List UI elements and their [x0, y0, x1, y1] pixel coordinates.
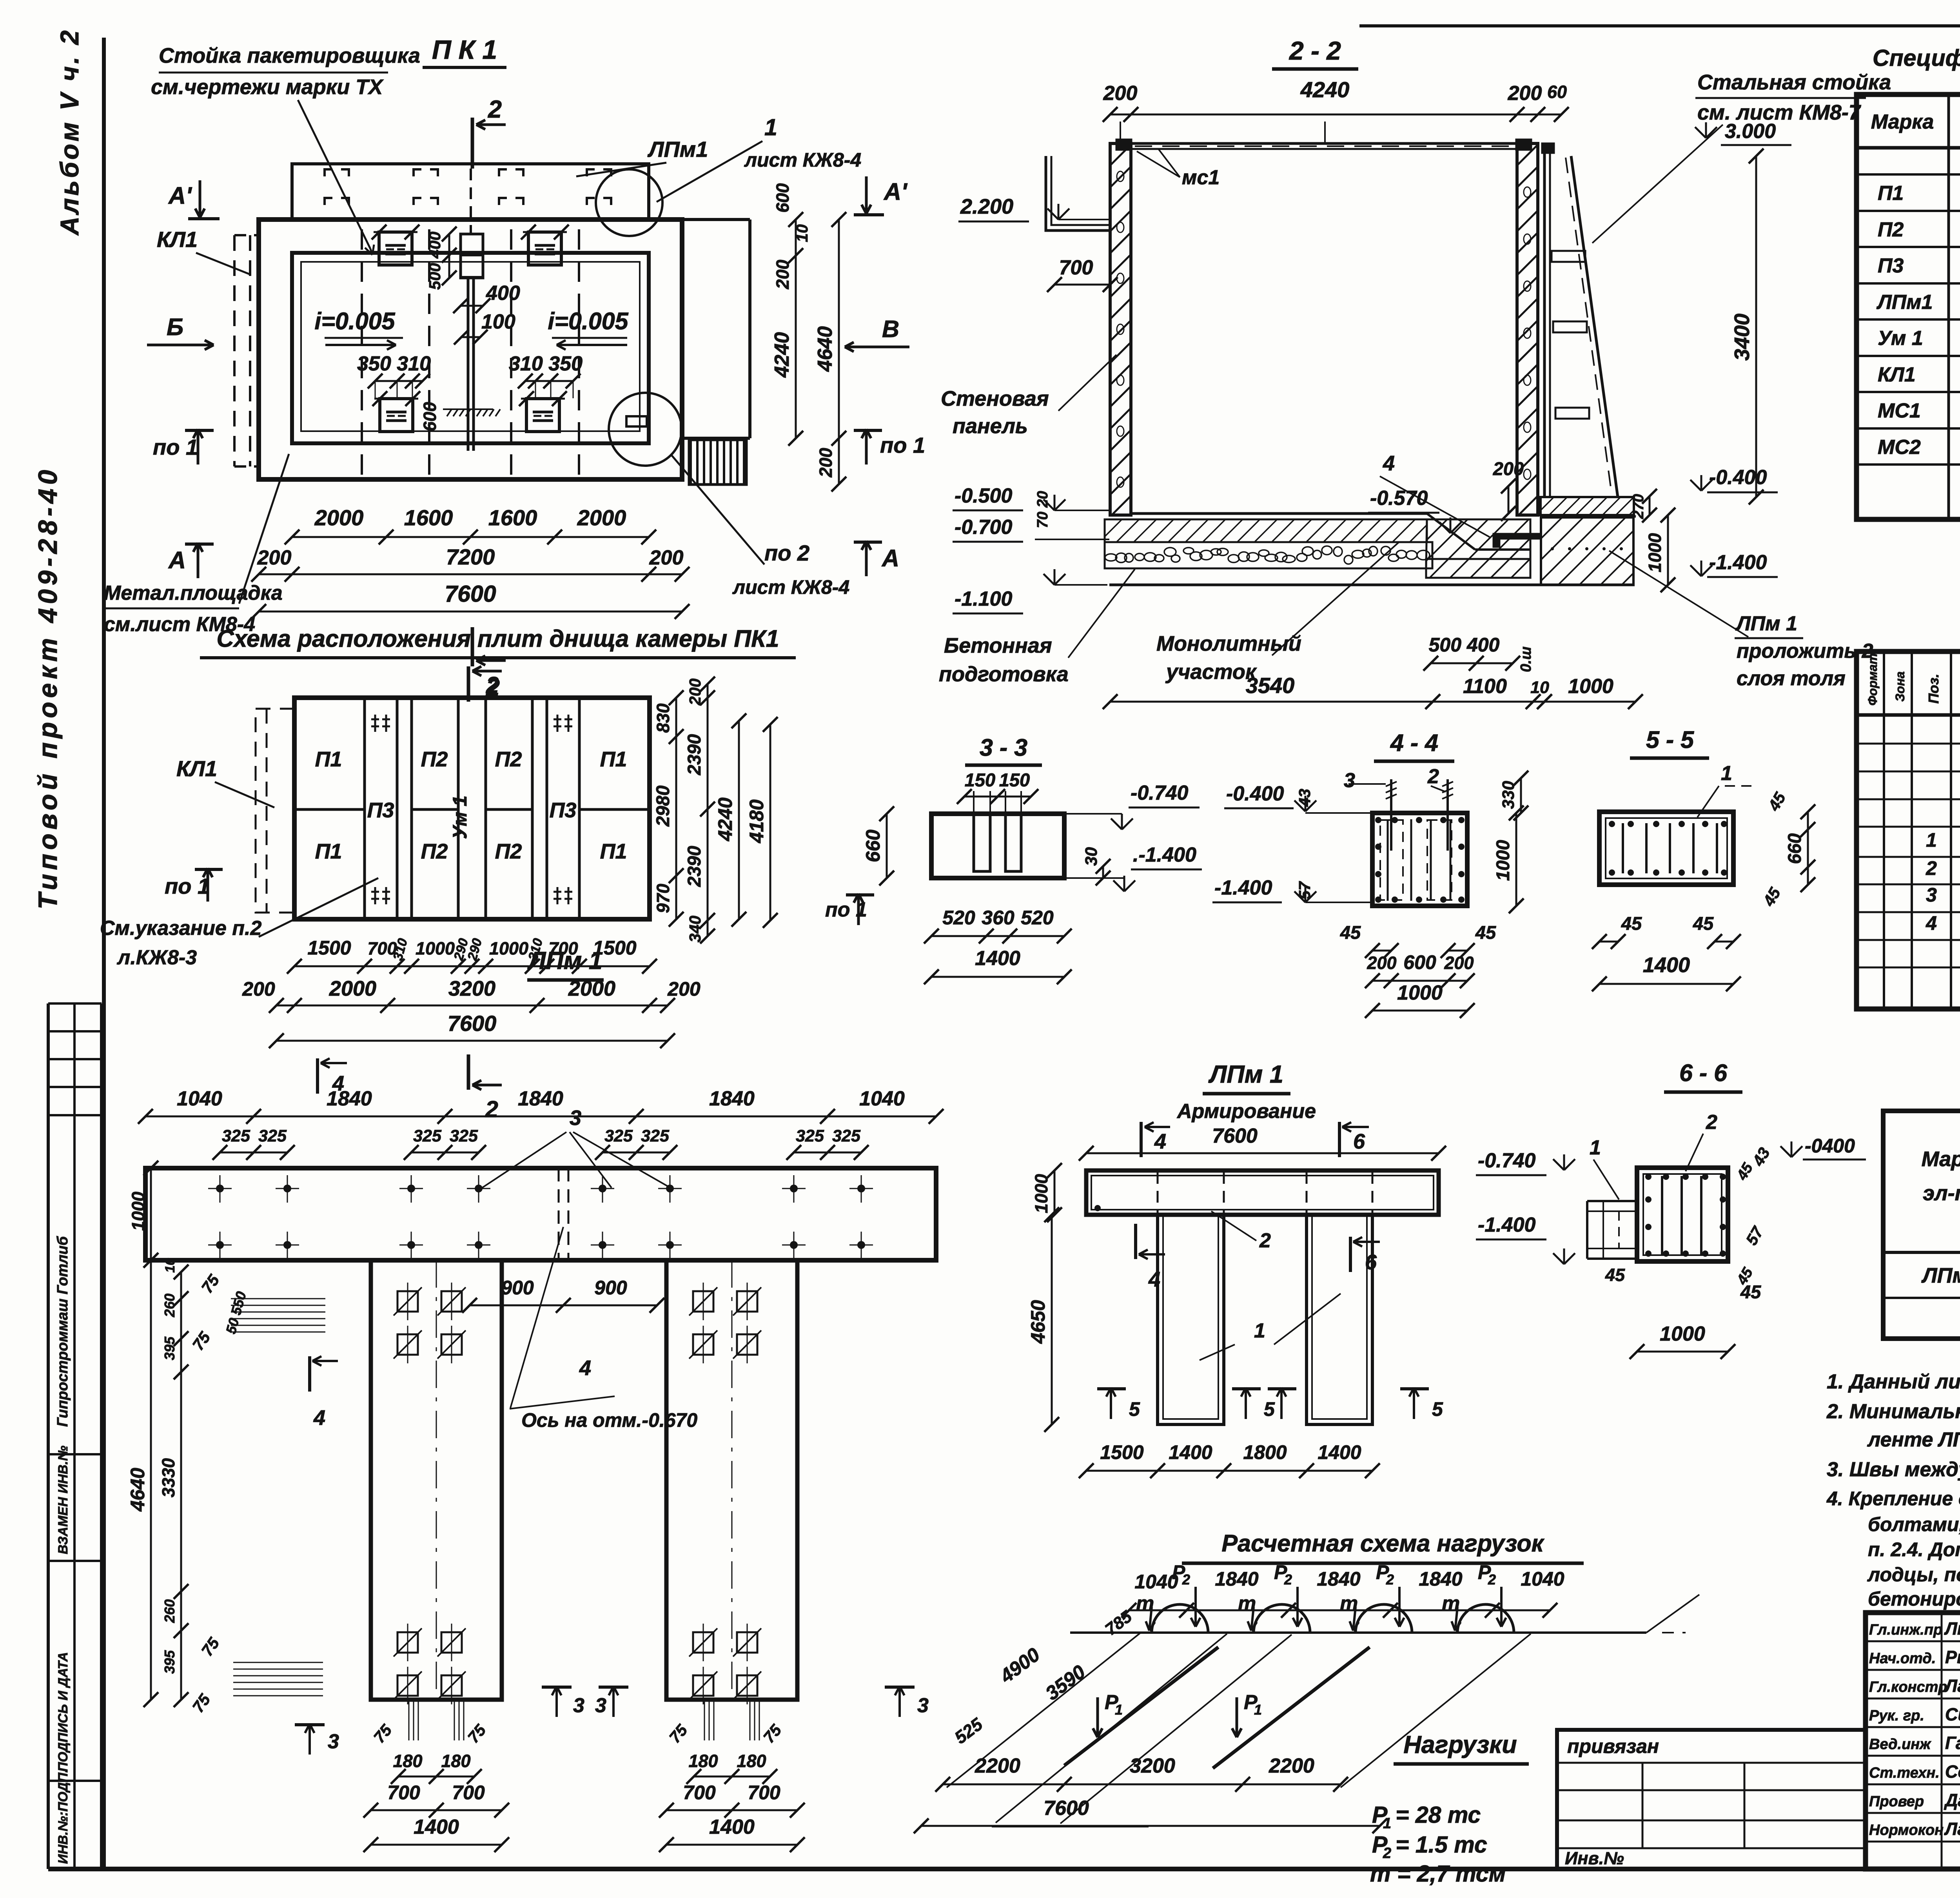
- svg-text:Монолитный: Монолитный: [1156, 632, 1301, 655]
- svg-text:П2: П2: [421, 840, 448, 863]
- svg-text:4: 4: [1926, 912, 1937, 934]
- svg-text:520: 520: [942, 907, 975, 929]
- svg-text:-1.100: -1.100: [955, 588, 1013, 610]
- svg-text:1400: 1400: [709, 1816, 755, 1838]
- svg-text:3: 3: [917, 1694, 929, 1717]
- svg-text:1840: 1840: [1419, 1568, 1462, 1590]
- svg-text:Формат: Формат: [1866, 653, 1880, 706]
- svg-text:-0.500: -0.500: [955, 484, 1013, 507]
- svg-text:п. 2.4. Допускается крепле: п. 2.4. Допускается крепление оборудован…: [1868, 1539, 1960, 1560]
- svg-text:ИНВ.№:ПОДП.: ИНВ.№:ПОДП.: [56, 1769, 71, 1864]
- svg-text:болтами, соединенными с бетоно: болтами, соединенными с бетоном на эпокс…: [1868, 1513, 1960, 1535]
- svg-text:2: 2: [486, 672, 499, 698]
- svg-text:П1: П1: [315, 840, 342, 863]
- svg-text:Марка: Марка: [1922, 1147, 1960, 1171]
- svg-text:см.чертежи марки ТХ: см.чертежи марки ТХ: [151, 75, 384, 99]
- svg-text:Стеновая: Стеновая: [941, 387, 1049, 410]
- svg-text:Зона: Зона: [1893, 671, 1907, 702]
- svg-text:325: 325: [222, 1127, 250, 1145]
- svg-text:Любавин: Любавин: [1944, 1619, 1960, 1639]
- svg-text:270: 270: [1630, 494, 1647, 519]
- svg-text:660: 660: [862, 829, 884, 862]
- svg-text:участок: участок: [1165, 660, 1257, 684]
- svg-text:1000: 1000: [1568, 675, 1613, 698]
- svg-text:5: 5: [1129, 1398, 1140, 1420]
- svg-text:1400: 1400: [975, 947, 1020, 970]
- svg-text:П1: П1: [600, 840, 627, 863]
- svg-text:привязан: привязан: [1567, 1735, 1659, 1757]
- svg-text:10: 10: [793, 224, 811, 242]
- svg-text:1: 1: [1383, 1815, 1391, 1832]
- svg-text:-1.400: -1.400: [1709, 551, 1767, 574]
- svg-text:45: 45: [1340, 922, 1361, 943]
- svg-text:1600: 1600: [488, 505, 537, 530]
- svg-text:ЛПм 1: ЛПм 1: [1921, 1264, 1960, 1287]
- svg-text:-0400: -0400: [1805, 1135, 1855, 1157]
- svg-text:7600: 7600: [1044, 1797, 1089, 1820]
- svg-text:1840: 1840: [327, 1087, 372, 1110]
- svg-text:1000: 1000: [1660, 1323, 1705, 1345]
- svg-text:1600: 1600: [404, 505, 453, 530]
- svg-text:45: 45: [1693, 913, 1714, 934]
- svg-text:Ст.техн.: Ст.техн.: [1869, 1765, 1940, 1781]
- svg-text:325: 325: [796, 1127, 824, 1145]
- svg-text:4: 4: [1383, 452, 1395, 475]
- svg-text:Ум 1: Ум 1: [449, 795, 471, 839]
- svg-text:Провер: Провер: [1869, 1793, 1924, 1810]
- svg-text:по 1: по 1: [880, 433, 925, 457]
- svg-text:600: 600: [420, 402, 440, 431]
- svg-text:П3: П3: [1878, 254, 1904, 277]
- svg-text:A': A': [168, 182, 192, 209]
- svg-text:Гл.инж.пр: Гл.инж.пр: [1869, 1622, 1942, 1638]
- svg-text:4 - 4: 4 - 4: [1390, 729, 1438, 756]
- svg-text:3200: 3200: [1130, 1755, 1175, 1777]
- svg-text:проложить 2: проложить 2: [1737, 640, 1873, 662]
- svg-text:по 1: по 1: [165, 874, 210, 898]
- svg-text:-0.400: -0.400: [1709, 466, 1767, 489]
- svg-text:4240: 4240: [771, 332, 793, 378]
- svg-text:П1: П1: [1878, 182, 1904, 205]
- svg-text:Марка: Марка: [1871, 111, 1934, 133]
- svg-text:45: 45: [1740, 1281, 1761, 1302]
- svg-text:1500: 1500: [307, 937, 351, 959]
- svg-text:4640: 4640: [814, 326, 837, 372]
- svg-text:1000: 1000: [1031, 1174, 1051, 1213]
- svg-text:ЛПм 1: ЛПм 1: [1735, 612, 1797, 635]
- svg-text:5: 5: [1432, 1398, 1443, 1420]
- svg-text:П1: П1: [315, 748, 342, 771]
- svg-text:4: 4: [579, 1356, 591, 1380]
- svg-text:660: 660: [1784, 833, 1805, 864]
- svg-text:325: 325: [413, 1127, 442, 1145]
- svg-text:КЛ1: КЛ1: [157, 227, 198, 252]
- svg-text:10: 10: [1530, 678, 1549, 697]
- svg-text:-1.400: -1.400: [1214, 876, 1272, 899]
- svg-text:A: A: [881, 545, 899, 572]
- svg-text:180: 180: [441, 1751, 470, 1771]
- svg-text:см. лист КМ8-7: см. лист КМ8-7: [1697, 101, 1862, 124]
- svg-text:Ось на отм.-0.670: Ось на отм.-0.670: [521, 1409, 697, 1431]
- svg-text:2: 2: [1383, 1845, 1391, 1862]
- svg-text:П2: П2: [1878, 218, 1904, 241]
- svg-text:200: 200: [1493, 458, 1524, 479]
- svg-text:ЛПм 1: ЛПм 1: [527, 947, 603, 974]
- svg-text:Гл.констр: Гл.констр: [1869, 1679, 1947, 1695]
- svg-text:45: 45: [1475, 922, 1496, 943]
- svg-text:2.200: 2.200: [960, 195, 1013, 218]
- svg-text:лист КЖ8-4: лист КЖ8-4: [732, 576, 849, 598]
- svg-text:2: 2: [1926, 857, 1937, 879]
- svg-text:.-1.400: .-1.400: [1133, 844, 1196, 866]
- svg-text:200: 200: [1103, 82, 1138, 105]
- svg-text:900: 900: [501, 1277, 534, 1299]
- svg-text:4650: 4650: [1027, 1300, 1049, 1344]
- svg-text:= 1.5 тс: = 1.5 тс: [1396, 1832, 1487, 1858]
- svg-text:П2: П2: [495, 840, 522, 863]
- svg-text:1400: 1400: [1318, 1441, 1361, 1463]
- svg-text:3400: 3400: [1730, 314, 1754, 361]
- svg-text:4. Крепление оборудования к: 4. Крепление оборудования к фундаментным…: [1826, 1488, 1960, 1510]
- svg-text:45: 45: [1621, 913, 1642, 934]
- svg-text:Стойка пакетировщика: Стойка пакетировщика: [159, 44, 420, 67]
- svg-text:1840: 1840: [1317, 1568, 1360, 1590]
- svg-text:1840: 1840: [518, 1087, 563, 1110]
- svg-text:1: 1: [1926, 829, 1937, 851]
- svg-text:2000: 2000: [577, 505, 626, 530]
- svg-text:Соболева: Соболева: [1945, 1762, 1960, 1782]
- svg-text:П1: П1: [600, 748, 627, 771]
- svg-text:П3: П3: [367, 798, 394, 822]
- svg-text:325: 325: [258, 1127, 287, 1145]
- svg-text:Инв.№: Инв.№: [1565, 1848, 1624, 1868]
- svg-text:-0.740: -0.740: [1478, 1149, 1536, 1172]
- svg-text:500 400: 500 400: [1429, 634, 1500, 656]
- svg-text:л.КЖ8-3: л.КЖ8-3: [116, 946, 197, 969]
- svg-text:180: 180: [737, 1751, 766, 1771]
- svg-text:4240: 4240: [1300, 77, 1350, 102]
- svg-text:2390: 2390: [684, 734, 704, 776]
- svg-text:ЛПм1: ЛПм1: [1876, 291, 1933, 314]
- svg-text:360: 360: [982, 907, 1014, 929]
- svg-text:1040: 1040: [177, 1087, 222, 1110]
- svg-text:по 1: по 1: [825, 898, 867, 921]
- svg-text:60: 60: [1547, 82, 1567, 102]
- svg-text:Альбом V ч. 2: Альбом V ч. 2: [55, 28, 84, 236]
- svg-text:m: m: [1136, 1592, 1154, 1615]
- svg-text:Схема расположения плит днища: Схема расположения плит днища камеры ПК1: [216, 625, 779, 652]
- svg-text:700: 700: [1059, 256, 1093, 279]
- svg-text:600: 600: [773, 183, 793, 212]
- svg-text:П3: П3: [550, 798, 577, 822]
- svg-text:1: 1: [1254, 1702, 1262, 1718]
- svg-text:43: 43: [1296, 789, 1314, 807]
- svg-text:Вед.инж: Вед.инж: [1869, 1736, 1931, 1753]
- svg-text:Лапкин: Лапкин: [1944, 1676, 1960, 1696]
- svg-text:П К 1: П К 1: [432, 35, 497, 65]
- svg-text:0.ш: 0.ш: [1518, 646, 1534, 672]
- svg-text:1. Данный лист см. совмес: 1. Данный лист см. совместно с листами К…: [1827, 1370, 1960, 1393]
- svg-text:2200: 2200: [1269, 1755, 1314, 1777]
- svg-text:3: 3: [595, 1694, 606, 1717]
- svg-text:1000: 1000: [128, 1192, 148, 1231]
- svg-text:2980: 2980: [652, 786, 673, 827]
- svg-text:3 - 3: 3 - 3: [980, 734, 1027, 761]
- svg-text:2: 2: [1427, 765, 1439, 788]
- svg-text:Метал.площадка: Метал.площадка: [104, 582, 283, 604]
- svg-text:3200: 3200: [448, 977, 495, 1000]
- svg-text:Гипростроммаш Готлиб: Гипростроммаш Готлиб: [54, 1236, 71, 1427]
- svg-text:2200: 2200: [975, 1755, 1020, 1777]
- svg-text:1000: 1000: [1645, 533, 1665, 572]
- svg-text:970: 970: [653, 884, 673, 913]
- svg-text:150: 150: [999, 769, 1030, 790]
- svg-text:1: 1: [1590, 1136, 1601, 1159]
- svg-text:4: 4: [313, 1406, 325, 1430]
- svg-text:520: 520: [1021, 907, 1054, 929]
- svg-text:310 350: 310 350: [509, 352, 583, 375]
- svg-text:-0.700: -0.700: [955, 516, 1013, 539]
- svg-text:3: 3: [570, 1106, 581, 1130]
- svg-text:395: 395: [162, 1336, 178, 1360]
- svg-text:2: 2: [1284, 1571, 1292, 1588]
- svg-text:5 - 5: 5 - 5: [1646, 726, 1694, 753]
- svg-text:6: 6: [1365, 1250, 1377, 1274]
- svg-text:5: 5: [1264, 1398, 1275, 1420]
- svg-text:1: 1: [1254, 1319, 1265, 1342]
- svg-text:45: 45: [1605, 1265, 1625, 1285]
- svg-text:700: 700: [748, 1782, 780, 1804]
- svg-text:Лапкин: Лапкин: [1944, 1819, 1960, 1839]
- svg-text:панель: панель: [953, 414, 1028, 438]
- svg-text:3330: 3330: [158, 1458, 178, 1497]
- svg-text:4: 4: [1154, 1130, 1166, 1153]
- svg-text:30: 30: [1082, 847, 1101, 866]
- svg-text:m: m: [1238, 1592, 1256, 1615]
- svg-text:57: 57: [1296, 881, 1314, 900]
- svg-text:лодцы, показанные на данном: лодцы, показанные на данном чертеже. Раз…: [1867, 1564, 1960, 1586]
- svg-text:Гальперина: Гальперина: [1945, 1733, 1960, 1753]
- svg-text:200: 200: [1367, 953, 1396, 973]
- svg-text:7600: 7600: [448, 1011, 497, 1036]
- svg-text:2: 2: [1386, 1571, 1394, 1588]
- svg-text:1000: 1000: [489, 938, 528, 958]
- svg-text:700: 700: [387, 1782, 420, 1804]
- svg-text:Рук. гр.: Рук. гр.: [1869, 1707, 1924, 1724]
- svg-text:2: 2: [1182, 1571, 1190, 1588]
- svg-text:Расчетная схема нагрузок: Расчетная схема нагрузок: [1221, 1530, 1544, 1557]
- svg-text:Поз.: Поз.: [1926, 674, 1942, 704]
- svg-text:3: 3: [573, 1694, 584, 1717]
- svg-text:10: 10: [163, 1258, 178, 1273]
- svg-text:2: 2: [1488, 1571, 1496, 1588]
- svg-text:Бетонная: Бетонная: [944, 634, 1052, 657]
- svg-text:600: 600: [1403, 951, 1436, 973]
- svg-text:1: 1: [1115, 1702, 1123, 1718]
- svg-text:Стальная стойка: Стальная стойка: [1697, 71, 1891, 94]
- svg-text:7200: 7200: [446, 544, 495, 569]
- svg-text:400: 400: [486, 282, 520, 305]
- svg-text:3: 3: [1926, 884, 1937, 906]
- svg-text:200: 200: [242, 978, 275, 1000]
- svg-text:200: 200: [686, 679, 704, 706]
- svg-text:ЛПм 1: ЛПм 1: [1208, 1061, 1283, 1088]
- svg-text:2000: 2000: [314, 505, 364, 530]
- svg-text:1040: 1040: [859, 1087, 905, 1110]
- svg-text:1040: 1040: [1521, 1568, 1564, 1590]
- svg-text:150: 150: [965, 769, 995, 790]
- svg-text:200: 200: [816, 448, 836, 477]
- svg-text:1000: 1000: [1492, 840, 1513, 881]
- svg-text:B: B: [882, 316, 899, 342]
- svg-text:лист КЖ8-4: лист КЖ8-4: [744, 149, 861, 171]
- svg-text:325: 325: [641, 1127, 670, 1145]
- svg-text:Б: Б: [167, 314, 183, 340]
- svg-text:Нормокон: Нормокон: [1869, 1822, 1944, 1838]
- svg-text:КЛ1: КЛ1: [1878, 363, 1916, 386]
- svg-text:2390: 2390: [684, 846, 704, 887]
- svg-text:1: 1: [764, 114, 777, 140]
- svg-text:МС1: МС1: [1878, 399, 1921, 422]
- svg-text:1: 1: [1721, 762, 1732, 785]
- svg-text:700: 700: [452, 1782, 485, 1804]
- svg-text:3. Швы между плитами днища: 3. Швы между плитами днища заделать цеме…: [1827, 1458, 1960, 1481]
- svg-text:1100: 1100: [1463, 675, 1507, 698]
- svg-text:мс1: мс1: [1182, 166, 1220, 189]
- svg-text:2: 2: [488, 96, 502, 123]
- svg-text:260: 260: [162, 1294, 178, 1317]
- svg-text:4240: 4240: [714, 797, 736, 841]
- svg-text:-1.400: -1.400: [1478, 1214, 1536, 1236]
- svg-text:4640: 4640: [127, 1468, 149, 1512]
- svg-text:Рыбкина: Рыбкина: [1945, 1647, 1960, 1667]
- svg-text:-0.400: -0.400: [1226, 782, 1284, 805]
- svg-text:200: 200: [649, 546, 684, 569]
- svg-text:3: 3: [328, 1730, 339, 1753]
- svg-text:слоя толя: слоя толя: [1737, 667, 1846, 690]
- svg-text:70 20: 70 20: [1034, 491, 1051, 528]
- svg-text:Давыдова: Давыдова: [1944, 1790, 1960, 1810]
- svg-text:330: 330: [1499, 781, 1518, 809]
- svg-text:ленте ЛПм 1 принят 37: ленте ЛПм 1 принят 37 мм.: [1867, 1428, 1960, 1451]
- svg-text:395: 395: [162, 1650, 178, 1674]
- svg-text:эл-та: эл-та: [1923, 1181, 1960, 1205]
- svg-text:6 - 6: 6 - 6: [1679, 1060, 1728, 1086]
- svg-text:325: 325: [832, 1127, 861, 1145]
- svg-text:200: 200: [1444, 953, 1474, 973]
- svg-text:200: 200: [773, 259, 793, 289]
- svg-text:Синельникова: Синельникова: [1945, 1704, 1960, 1724]
- svg-text:200: 200: [257, 546, 292, 569]
- svg-text:830: 830: [653, 703, 673, 733]
- svg-text:2: 2: [485, 1096, 498, 1122]
- svg-text:ПОДПИСЬ И ДАТА: ПОДПИСЬ И ДАТА: [56, 1652, 71, 1772]
- svg-text:бетонированием сверить по о: бетонированием сверить по оборудованию.: [1868, 1588, 1960, 1610]
- svg-text:Армирование: Армирование: [1176, 1100, 1316, 1123]
- svg-text:ЛПм1: ЛПм1: [647, 137, 708, 161]
- svg-text:180: 180: [393, 1751, 422, 1771]
- svg-text:1840: 1840: [709, 1087, 755, 1110]
- svg-text:6: 6: [1353, 1130, 1365, 1153]
- svg-text:МС2: МС2: [1878, 436, 1921, 459]
- svg-text:340: 340: [686, 916, 704, 943]
- svg-text:500: 500: [426, 263, 444, 290]
- svg-text:2. Минимальный защитный сл: 2. Минимальный защитный слой бетона до р…: [1826, 1400, 1960, 1423]
- svg-text:700: 700: [683, 1782, 716, 1804]
- svg-text:КЛ1: КЛ1: [176, 756, 217, 781]
- svg-text:1400: 1400: [1643, 953, 1690, 977]
- svg-text:1000: 1000: [416, 938, 455, 958]
- svg-text:подготовка: подготовка: [939, 662, 1069, 686]
- svg-text:400: 400: [426, 232, 444, 259]
- svg-text:2 - 2: 2 - 2: [1289, 36, 1341, 65]
- svg-text:Нагрузки: Нагрузки: [1403, 1731, 1517, 1758]
- svg-text:1840: 1840: [1215, 1568, 1258, 1590]
- svg-text:m: m: [1340, 1592, 1358, 1615]
- svg-text:350 310: 350 310: [357, 352, 431, 375]
- svg-text:-0.740: -0.740: [1131, 782, 1189, 804]
- svg-text:A: A: [168, 547, 186, 573]
- svg-text:Спецификация к схемам располож: Спецификация к схемам расположения элеме…: [1873, 45, 1960, 71]
- svg-text:П2: П2: [421, 748, 448, 771]
- svg-text:m: m: [1442, 1592, 1460, 1615]
- svg-text:1500: 1500: [1100, 1441, 1143, 1463]
- svg-text:7600: 7600: [1212, 1125, 1258, 1147]
- svg-text:200: 200: [1508, 82, 1542, 105]
- svg-text:m = 2,7 тсм: m = 2,7 тсм: [1370, 1861, 1506, 1887]
- svg-text:2: 2: [1259, 1229, 1271, 1252]
- svg-text:1000: 1000: [1397, 982, 1443, 1004]
- svg-text:Нач.отд.: Нач.отд.: [1869, 1650, 1936, 1667]
- svg-text:1400: 1400: [1169, 1441, 1212, 1463]
- svg-text:1400: 1400: [414, 1816, 459, 1838]
- svg-text:4180: 4180: [746, 799, 768, 843]
- svg-text:Ум 1: Ум 1: [1878, 327, 1923, 350]
- svg-text:1800: 1800: [1243, 1441, 1287, 1463]
- svg-text:200: 200: [667, 978, 701, 1000]
- svg-text:по 1: по 1: [153, 435, 198, 459]
- svg-text:по 2: по 2: [764, 541, 809, 565]
- svg-text:i=0.005: i=0.005: [314, 308, 395, 334]
- svg-text:325: 325: [450, 1127, 478, 1145]
- svg-text:7600: 7600: [445, 581, 496, 607]
- svg-text:-0.570: -0.570: [1370, 487, 1428, 510]
- svg-text:A': A': [883, 178, 908, 205]
- svg-text:= 28 тс: = 28 тс: [1396, 1802, 1481, 1828]
- svg-text:2: 2: [1706, 1111, 1717, 1134]
- svg-text:i=0.005: i=0.005: [548, 308, 628, 334]
- svg-text:См.указание п.2: См.указание п.2: [100, 917, 262, 940]
- svg-text:Типовой проект 409-28-40: Типовой проект 409-28-40: [33, 466, 63, 909]
- svg-text:325: 325: [604, 1127, 633, 1145]
- svg-text:ВЗАМЕН ИНВ.№: ВЗАМЕН ИНВ.№: [56, 1446, 71, 1554]
- svg-text:4: 4: [1148, 1268, 1160, 1291]
- svg-text:260: 260: [162, 1599, 178, 1623]
- svg-text:180: 180: [688, 1751, 718, 1771]
- svg-text:П2: П2: [495, 748, 522, 771]
- svg-text:900: 900: [594, 1277, 627, 1299]
- svg-text:2000: 2000: [329, 977, 376, 1000]
- svg-text:3: 3: [1344, 769, 1355, 792]
